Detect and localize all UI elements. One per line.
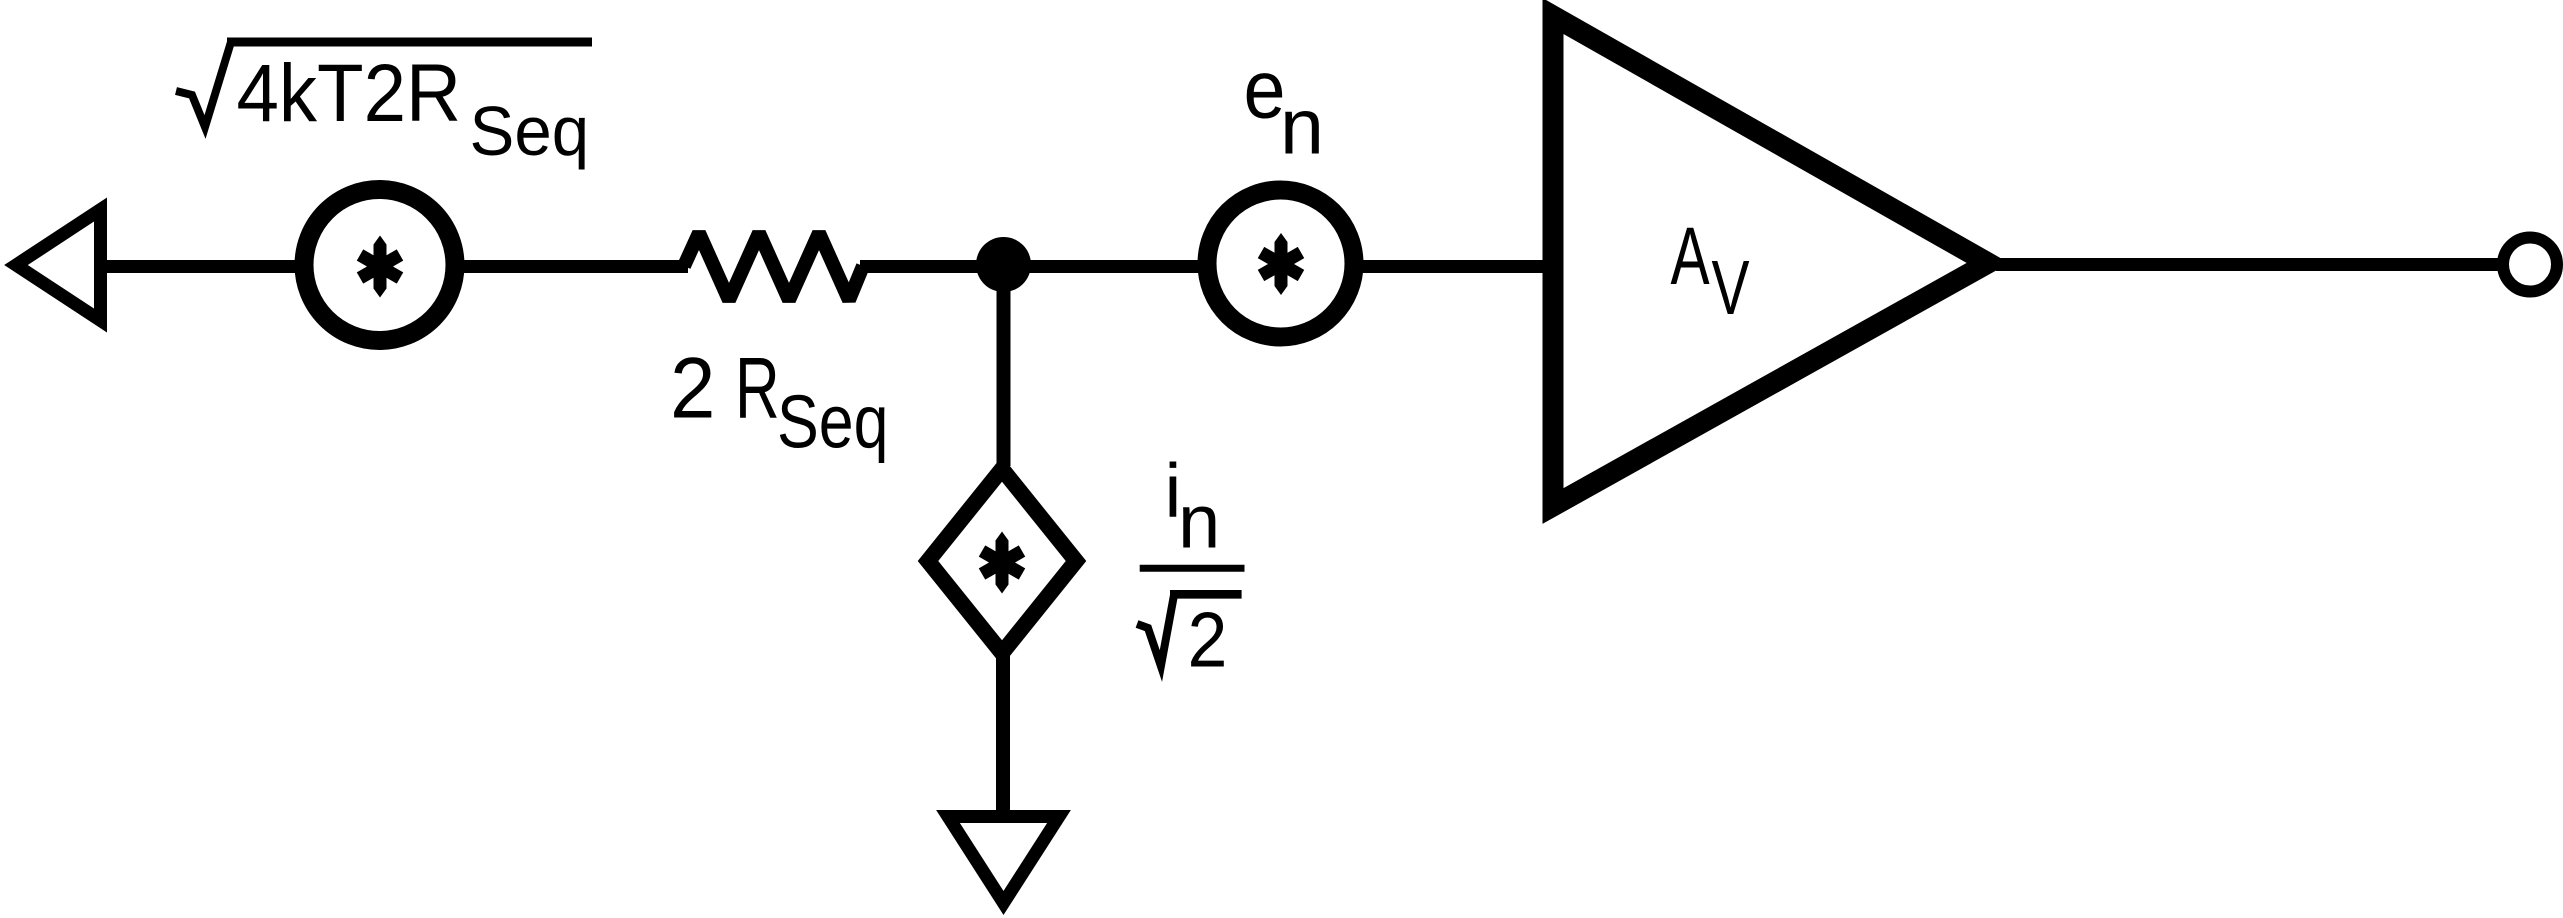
resistor 2RSeq zigzag: [684, 233, 863, 300]
fraction bar of in/sqrt2: [1140, 565, 1245, 572]
input terminal arrow: [16, 210, 101, 321]
wire node to en source: [1003, 260, 1201, 273]
en noise voltage source circle: [1207, 190, 1354, 337]
wire en source to op-amp: [1362, 260, 1556, 273]
svg-text:R: R: [735, 339, 780, 435]
svg-text:4kT2R: 4kT2R: [237, 46, 462, 138]
ground symbol: [948, 817, 1059, 904]
wire noise source to resistor: [462, 260, 688, 273]
wire current source to ground: [996, 650, 1010, 817]
svg-text:n: n: [1280, 82, 1324, 171]
dependent current source diamond (in/sqrt2): [928, 469, 1076, 653]
noise voltage source circle (sqrt 4kT2RSeq): [304, 190, 455, 341]
wire op-amp to output terminal: [1996, 258, 2500, 271]
sqrt(4kT2RSeq) label overbar: [227, 38, 592, 47]
svg-text:n: n: [1178, 480, 1220, 565]
wire resistor to node: [860, 260, 990, 273]
svg-text:A: A: [1671, 210, 1710, 302]
svg-text:Seq: Seq: [470, 92, 590, 171]
wire node down to current source: [997, 264, 1011, 466]
op-amp AV triangle: [1553, 16, 1988, 506]
svg-text:2: 2: [670, 340, 715, 436]
node junction dot: [976, 237, 1031, 292]
output terminal circle: [2503, 238, 2557, 292]
svg-text:Seq: Seq: [777, 379, 888, 464]
svg-text:V: V: [1712, 246, 1750, 331]
sqrt2 radical: [1137, 594, 1174, 666]
svg-text:2: 2: [1188, 596, 1228, 683]
asterisk in en source: [1261, 233, 1301, 295]
sqrt(4kT2RSeq) label radical: [176, 42, 231, 127]
asterisk in current source: [982, 532, 1022, 594]
wire input to noise source: [104, 260, 298, 273]
asterisk in noise voltage source: [360, 236, 400, 298]
sqrt2 overbar: [1170, 590, 1242, 599]
